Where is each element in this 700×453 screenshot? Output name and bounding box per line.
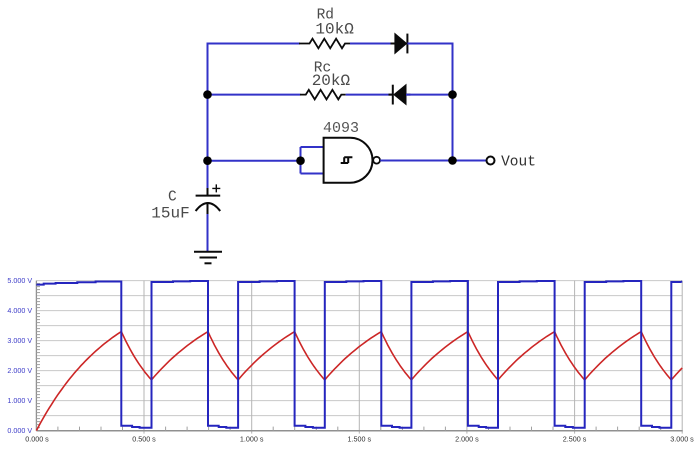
resistor Rd bbox=[299, 39, 350, 49]
svg-text:0.500 s: 0.500 s bbox=[132, 435, 156, 444]
wire: input stub B bbox=[301, 173, 325, 175]
svg-text:1.000 V: 1.000 V bbox=[7, 396, 32, 405]
wire: top rail middle segment bbox=[350, 43, 396, 45]
wire: top rail right segment bbox=[407, 43, 453, 45]
svg-text:3.000 s: 3.000 s bbox=[670, 435, 694, 444]
node E: junction right bus / output rail bbox=[448, 156, 457, 165]
svg-text:2.500 s: 2.500 s bbox=[563, 435, 587, 444]
svg-text:20kΩ: 20kΩ bbox=[312, 72, 351, 90]
svg-text:C: C bbox=[168, 189, 177, 205]
wire: top rail left segment (to Rd) bbox=[207, 43, 301, 45]
capacitor C plates bbox=[196, 196, 221, 211]
node C: junction input tie bbox=[296, 156, 305, 165]
wire: Rc rail right segment bbox=[406, 94, 453, 96]
value 15uF bbox=[151, 205, 189, 223]
ticks: y minor ticks 0.1V bbox=[36, 284, 40, 428]
label Vout bbox=[501, 155, 536, 171]
label Rd bbox=[317, 7, 334, 23]
wire: gate output bbox=[380, 160, 487, 162]
svg-text:0.000 s: 0.000 s bbox=[25, 435, 49, 444]
value 10kΩ bbox=[315, 21, 354, 39]
svg-text:2.000 V: 2.000 V bbox=[7, 366, 32, 375]
svg-text:2.000 s: 2.000 s bbox=[455, 435, 479, 444]
diode D1 (anode left, cathode right) bbox=[391, 34, 413, 54]
wire: input tie vertical bbox=[300, 147, 302, 174]
svg-text:Vout: Vout bbox=[501, 155, 536, 171]
NAND gate U1 4093 body bbox=[324, 138, 373, 183]
svg-text:0.000 V: 0.000 V bbox=[7, 426, 32, 435]
wire: Rc rail middle segment bbox=[346, 94, 393, 96]
svg-text:5.000 V: 5.000 V bbox=[7, 276, 32, 285]
wire: gate input rail bbox=[208, 160, 302, 162]
wire: Rc rail left segment bbox=[208, 94, 301, 96]
label Rc bbox=[314, 61, 331, 77]
svg-text:3.000 V: 3.000 V bbox=[7, 336, 32, 345]
svg-text:10kΩ: 10kΩ bbox=[315, 21, 354, 39]
ground bbox=[194, 252, 222, 263]
svg-text:1.500 s: 1.500 s bbox=[348, 435, 372, 444]
node: output terminal Vout open circle bbox=[487, 157, 495, 165]
label C bbox=[168, 189, 177, 205]
wire: left vertical bus bbox=[207, 44, 209, 162]
label 4093 bbox=[323, 120, 359, 137]
value 20kΩ bbox=[312, 72, 351, 90]
hysteresis symbol inside gate bbox=[341, 157, 353, 163]
svg-text:1.000 s: 1.000 s bbox=[240, 435, 264, 444]
wire: right vertical bus bbox=[452, 44, 454, 161]
trace: capacitor voltage (red) bbox=[36, 332, 682, 431]
wire: capacitor bottom lead bbox=[207, 203, 209, 251]
bubble: gate output inverter circle bbox=[373, 157, 380, 164]
axis: x axis line bbox=[36, 430, 682, 432]
y axis labels bbox=[7, 276, 32, 435]
axis: y axis line bbox=[35, 281, 37, 431]
node D: junction right bus / Rc rail bbox=[448, 90, 457, 99]
svg-text:4.000 V: 4.000 V bbox=[7, 306, 32, 315]
wire: input stub A bbox=[301, 146, 325, 148]
node A: junction left bus / Rc rail bbox=[203, 90, 212, 99]
wire: capacitor top lead bbox=[207, 161, 209, 196]
resistor Rc bbox=[300, 90, 346, 100]
grid: horizontal gridlines every 0.5V bbox=[36, 281, 682, 416]
trace: output square wave (blue) bbox=[36, 281, 682, 428]
x axis labels bbox=[25, 435, 694, 444]
ticks: x minor ticks 0.1s bbox=[58, 427, 661, 431]
grid: vertical gridlines every 0.5s bbox=[144, 281, 682, 434]
svg-text:15uF: 15uF bbox=[151, 205, 189, 223]
svg-text:4093: 4093 bbox=[323, 120, 359, 137]
plus sign polarity bbox=[212, 184, 220, 192]
diode D2 (cathode left, anode right) bbox=[389, 85, 411, 105]
node B: junction left bus / input rail bbox=[203, 156, 212, 165]
